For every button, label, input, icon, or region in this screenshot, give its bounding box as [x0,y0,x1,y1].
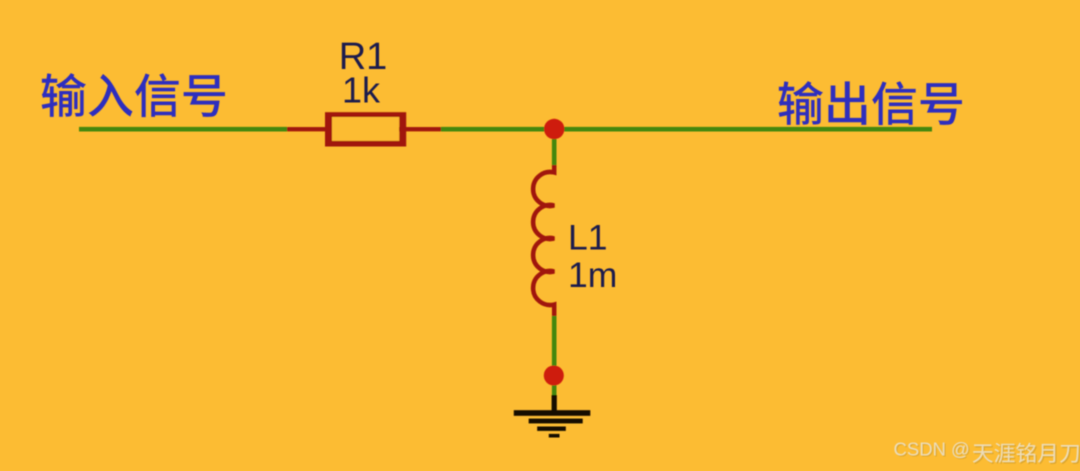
wire: vertical segment from junction down to inductor [552,129,557,166]
ground symbol lead [552,395,557,413]
watermark CSDN @天涯铭月刀 [974,444,1080,464]
node label 输入信号 (input signal) [42,73,225,117]
ground symbol bars [514,410,591,437]
wire: inductor bottom to ground node [552,316,557,396]
svg-text:CSDN @: CSDN @ [894,439,970,460]
junction node dot (output net) [544,119,564,139]
svg-text:1k: 1k [342,70,381,111]
resistor R1 left pin [287,127,328,131]
resistor R1 body [325,112,406,146]
node label 输出信号 (output signal) [779,81,962,125]
svg-text:L1: L1 [568,218,608,258]
wire: output net, horizontal segment to the right [441,127,932,132]
svg-text:1m: 1m [568,255,617,295]
inductor L1 [533,165,554,316]
ground node dot [544,366,564,386]
wire: input net, left horizontal segment [79,127,287,132]
resistor R1 right pin [399,127,441,131]
